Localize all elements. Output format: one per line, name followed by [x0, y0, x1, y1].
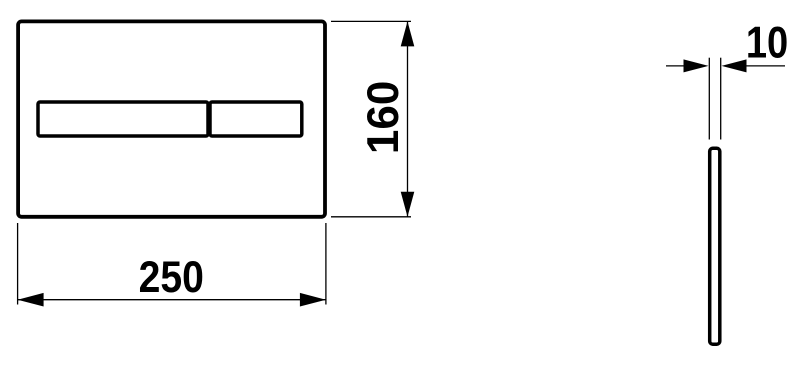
extension line right for 10 dimension — [720, 58, 722, 140]
svg-text:250: 250 — [139, 252, 204, 302]
front view: small flush button rectangle — [210, 102, 302, 136]
arrowhead left (250) — [18, 293, 44, 307]
arrowhead down (160 bottom) — [401, 192, 415, 217]
svg-text:10: 10 — [746, 16, 788, 67]
dimension line 10 right segment — [746, 65, 785, 67]
extension line left for 10 dimension — [708, 58, 710, 140]
arrowhead right (250) — [300, 293, 326, 307]
arrowhead pointing left (10 right) — [722, 59, 747, 72]
extension line bottom for 160 dimension — [331, 216, 411, 218]
dimension line 10 left segment — [666, 65, 686, 67]
arrowhead pointing right (10 left) — [684, 59, 709, 72]
front view: flush plate outer rectangle — [18, 21, 325, 216]
svg-text:160: 160 — [359, 81, 408, 154]
side view: plate profile — [710, 148, 720, 344]
extension line right for 250 dimension — [325, 223, 327, 305]
front view: large flush button rectangle — [38, 102, 208, 136]
arrowhead up (160 top) — [401, 21, 415, 46]
extension line left for 250 dimension — [17, 223, 19, 305]
dimension line 250 (horizontal) — [18, 299, 326, 301]
extension line top for 160 dimension — [331, 20, 411, 22]
dimension line 160 (vertical) — [407, 21, 409, 216]
